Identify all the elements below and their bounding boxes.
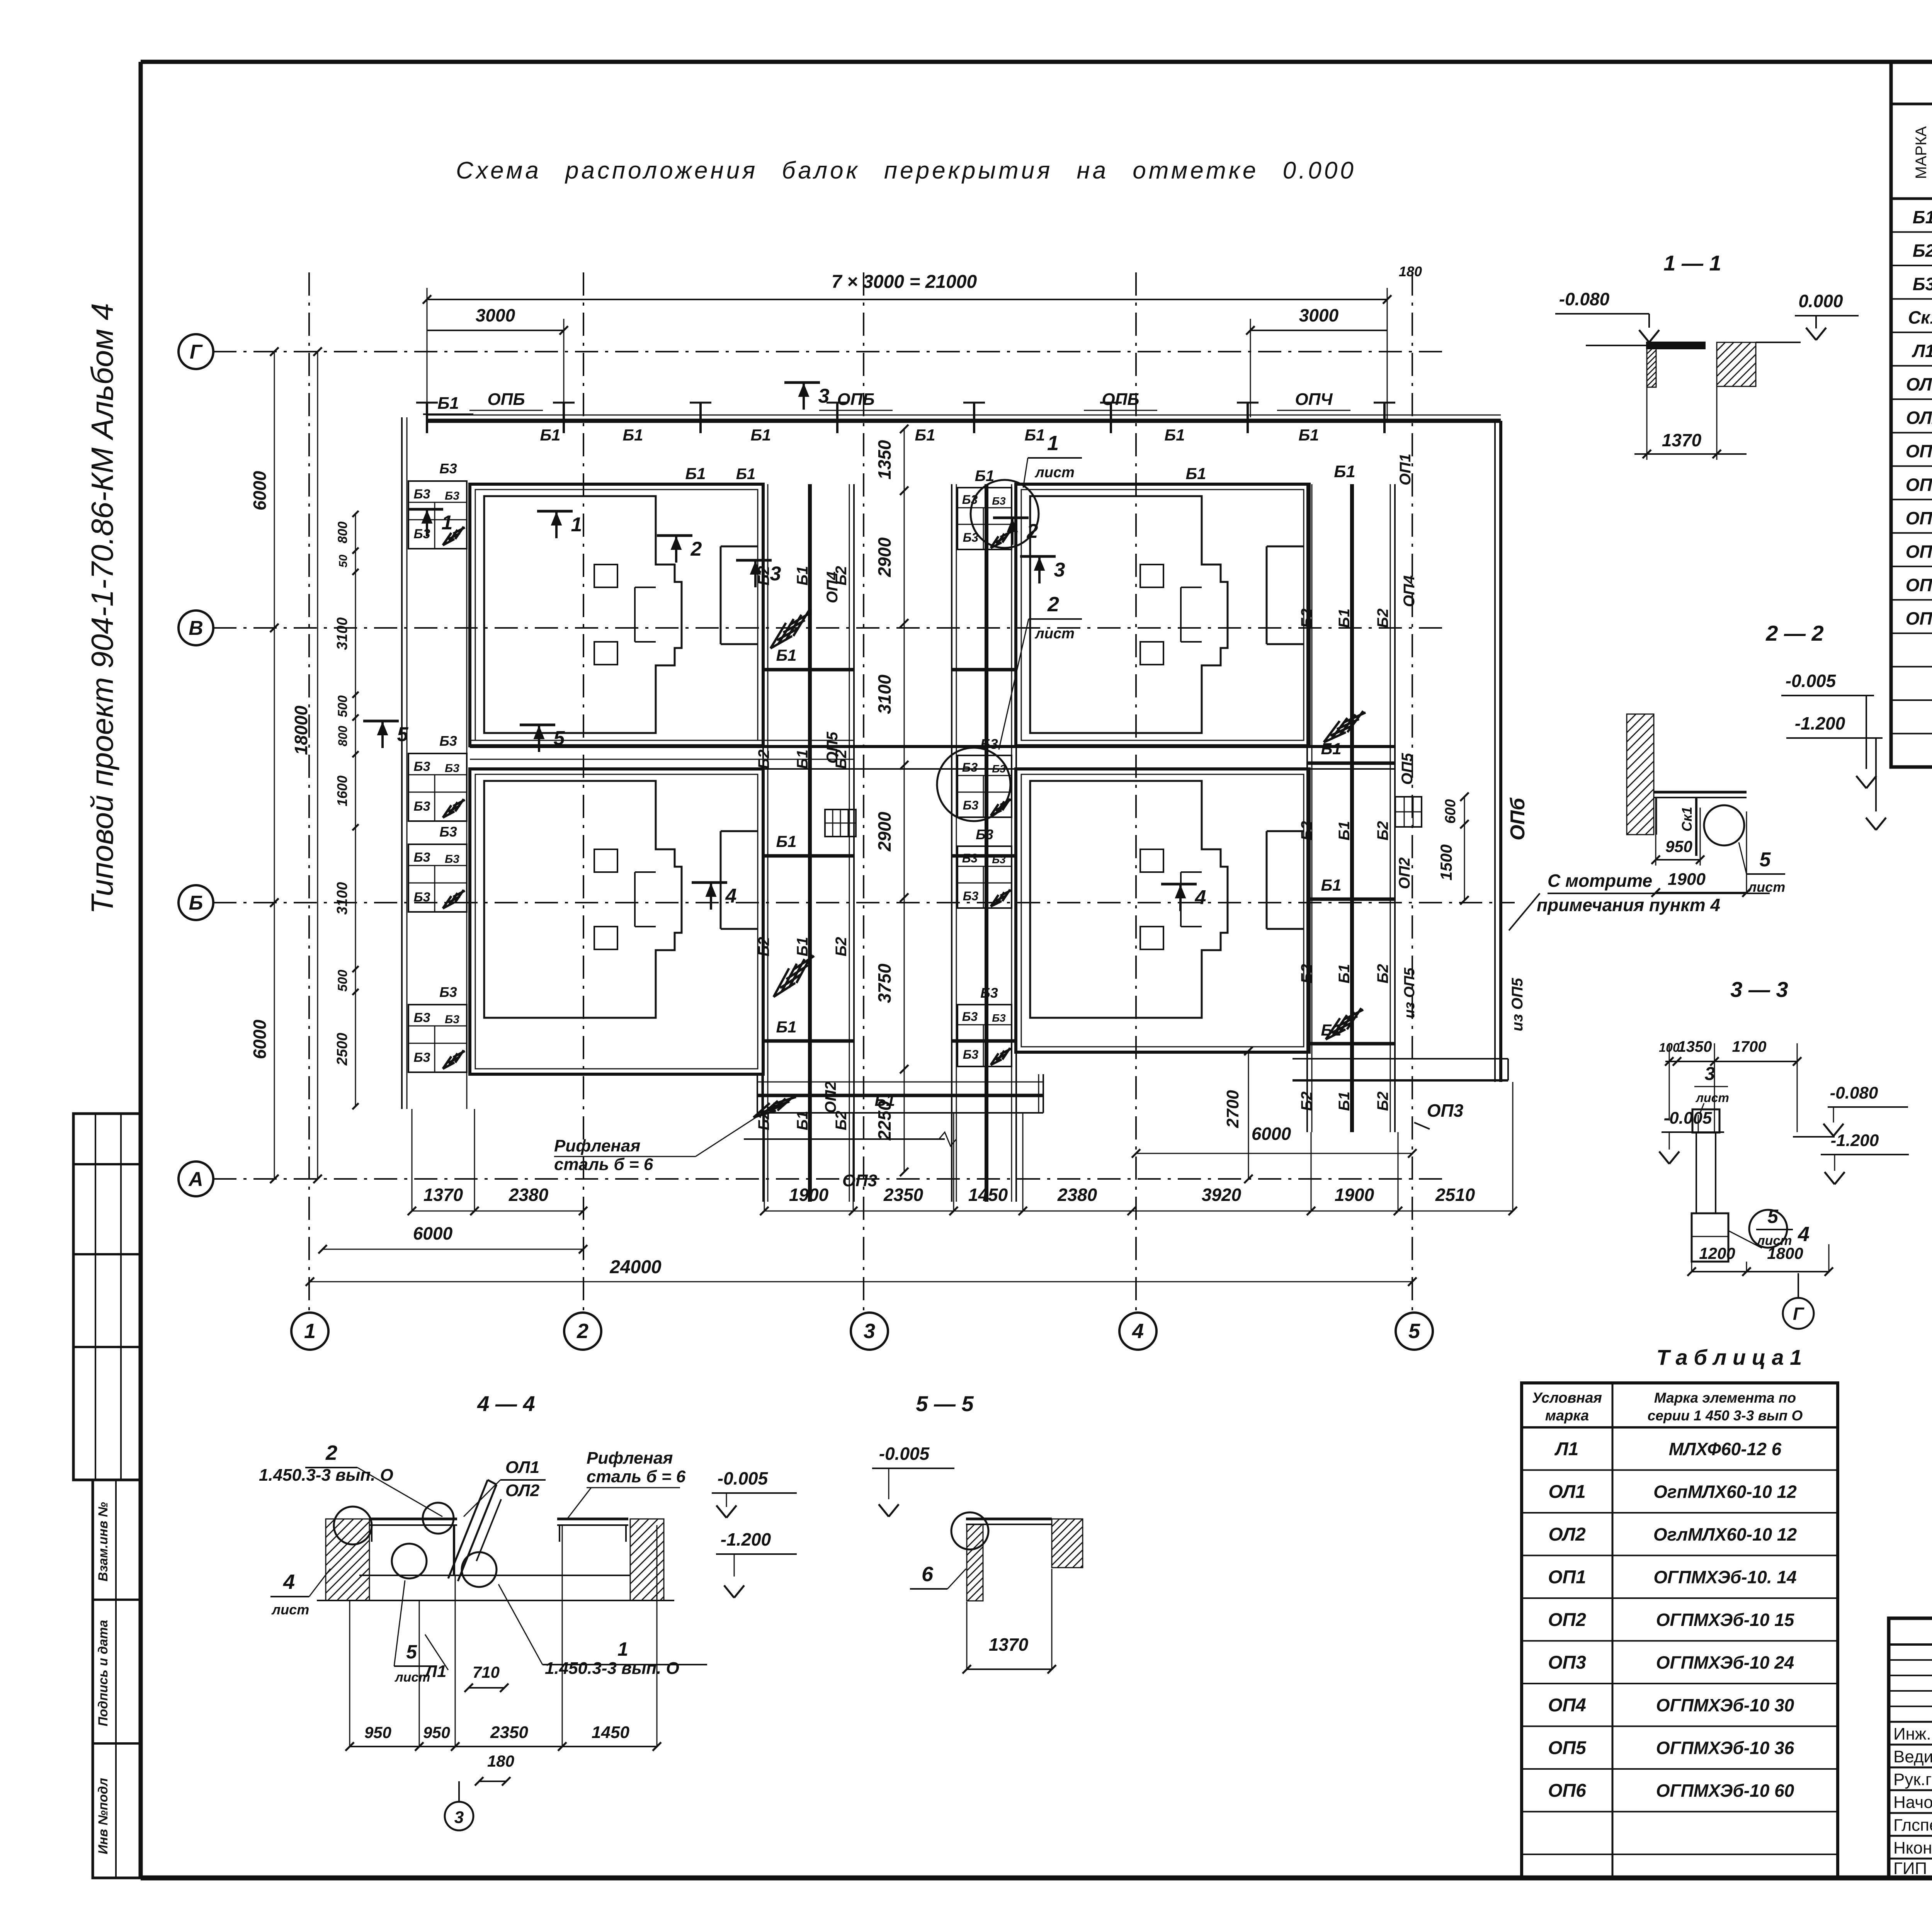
svg-text:серии 1 450 3-3 вып О: серии 1 450 3-3 вып О: [1648, 1408, 1803, 1423]
svg-text:лист: лист: [1695, 1091, 1729, 1105]
svg-text:7 × 3000 = 21000: 7 × 3000 = 21000: [832, 272, 977, 292]
svg-text:3: 3: [818, 385, 830, 407]
svg-text:4 — 4: 4 — 4: [477, 1391, 535, 1416]
svg-text:-1.200: -1.200: [721, 1529, 771, 1549]
svg-text:ОП5: ОП5: [1548, 1738, 1587, 1758]
svg-text:ОП1: ОП1: [1906, 441, 1932, 461]
svg-text:Б3: Б3: [992, 854, 1006, 866]
svg-text:6000: 6000: [250, 1019, 270, 1059]
svg-text:6: 6: [922, 1563, 934, 1586]
svg-text:1700: 1700: [1732, 1038, 1767, 1055]
svg-text:Б1: Б1: [794, 1111, 811, 1131]
svg-text:-0.005: -0.005: [1664, 1109, 1712, 1128]
svg-text:Б3: Б3: [439, 824, 457, 840]
svg-text:1200: 1200: [1699, 1244, 1735, 1262]
svg-text:Б3: Б3: [414, 890, 430, 905]
svg-text:5: 5: [406, 1641, 417, 1663]
svg-text:Рифленая: Рифленая: [587, 1449, 673, 1468]
svg-text:1: 1: [442, 512, 453, 534]
svg-text:Схема расположения балок: Схема расположения балок перекрытия на о…: [456, 157, 1356, 184]
svg-text:3100: 3100: [874, 674, 895, 714]
svg-text:3100: 3100: [334, 882, 350, 915]
svg-text:ОПб: ОПб: [1507, 797, 1529, 840]
svg-text:-1.200: -1.200: [1831, 1131, 1879, 1150]
svg-text:2350: 2350: [883, 1185, 923, 1205]
svg-text:Б1: Б1: [1334, 462, 1355, 481]
svg-text:1: 1: [571, 514, 582, 536]
svg-text:ОП2: ОП2: [822, 1082, 839, 1113]
svg-text:3000: 3000: [476, 305, 515, 325]
svg-text:2 — 2: 2 — 2: [1765, 621, 1823, 645]
svg-text:лист: лист: [271, 1602, 309, 1617]
svg-text:4: 4: [1195, 886, 1206, 909]
svg-text:2: 2: [1047, 593, 1059, 616]
svg-text:В: В: [189, 617, 203, 639]
svg-text:Б1: Б1: [1336, 609, 1353, 628]
svg-text:Инв №подл: Инв №подл: [96, 1778, 111, 1854]
svg-text:Б2: Б2: [1298, 609, 1315, 628]
svg-text:МЛХФ60-12 6: МЛХФ60-12 6: [1669, 1439, 1782, 1459]
svg-text:Б3: Б3: [445, 490, 459, 502]
svg-text:Б2: Б2: [1374, 609, 1391, 628]
svg-text:-0.005: -0.005: [1786, 671, 1837, 691]
svg-text:950: 950: [423, 1723, 450, 1742]
svg-text:ОЛ1: ОЛ1: [505, 1458, 539, 1477]
svg-text:ОП5: ОП5: [1399, 753, 1416, 785]
svg-text:Б: Б: [189, 892, 203, 914]
svg-text:1450: 1450: [592, 1723, 629, 1742]
svg-text:710: 710: [473, 1663, 500, 1681]
svg-text:2510: 2510: [1435, 1185, 1475, 1205]
svg-text:А: А: [188, 1168, 203, 1190]
svg-text:ОГПМХЭб-10 24: ОГПМХЭб-10 24: [1656, 1652, 1794, 1672]
svg-text:1.450.3-3 вып. О: 1.450.3-3 вып. О: [259, 1466, 393, 1485]
svg-text:Нконтр: Нконтр: [1893, 1838, 1932, 1857]
svg-text:1: 1: [1047, 432, 1059, 455]
svg-text:500: 500: [335, 696, 350, 718]
svg-text:Л1: Л1: [1554, 1439, 1579, 1459]
svg-text:Б1: Б1: [1298, 426, 1319, 444]
svg-text:1500: 1500: [1437, 844, 1455, 880]
svg-text:Б1: Б1: [750, 426, 771, 444]
svg-text:Б3: Б3: [414, 799, 430, 814]
svg-text:ОП6: ОП6: [1548, 1781, 1586, 1801]
svg-text:3 — 3: 3 — 3: [1730, 977, 1788, 1002]
svg-text:500: 500: [335, 970, 350, 992]
svg-text:800: 800: [335, 522, 350, 544]
svg-text:1800: 1800: [1767, 1244, 1803, 1262]
svg-text:Г: Г: [1793, 1304, 1804, 1324]
svg-text:Б1: Б1: [1336, 964, 1353, 984]
svg-text:ОПЧ: ОПЧ: [1295, 390, 1333, 409]
svg-text:-1.200: -1.200: [1795, 713, 1845, 733]
svg-text:1900: 1900: [789, 1185, 829, 1205]
svg-text:из ОП5: из ОП5: [1509, 978, 1526, 1031]
svg-text:Б3: Б3: [962, 1010, 978, 1024]
svg-text:Б1: Б1: [1164, 426, 1185, 444]
svg-text:Б2: Б2: [1913, 241, 1932, 261]
svg-text:3920: 3920: [1202, 1185, 1242, 1205]
svg-text:Б3: Б3: [445, 762, 459, 775]
svg-text:ГИП: ГИП: [1893, 1859, 1927, 1878]
svg-text:ОПБ: ОПБ: [487, 390, 525, 409]
svg-text:ОГПМХЭб-10. 14: ОГПМХЭб-10. 14: [1653, 1567, 1796, 1587]
svg-text:ОГПМХЭб-10 15: ОГПМХЭб-10 15: [1656, 1610, 1795, 1630]
svg-text:Б1: Б1: [776, 1018, 796, 1036]
svg-text:2: 2: [1027, 520, 1038, 543]
svg-text:МАРКА: МАРКА: [1913, 126, 1930, 179]
svg-text:Б2: Б2: [1374, 821, 1391, 841]
svg-text:2: 2: [690, 538, 702, 560]
svg-text:800: 800: [336, 726, 350, 747]
svg-text:Б1: Б1: [736, 466, 756, 483]
svg-text:марка: марка: [1545, 1408, 1589, 1424]
svg-text:950: 950: [364, 1723, 391, 1742]
svg-text:из ОП5: из ОП5: [1401, 968, 1418, 1019]
svg-text:Вединж: Вединж: [1893, 1747, 1932, 1766]
svg-text:3750: 3750: [874, 963, 895, 1003]
svg-text:950: 950: [1665, 837, 1692, 855]
svg-text:Рифленая: Рифленая: [554, 1136, 640, 1155]
svg-text:3100: 3100: [334, 617, 350, 650]
svg-text:6000: 6000: [1252, 1124, 1291, 1144]
svg-text:ОП4: ОП4: [1401, 575, 1418, 607]
svg-text:50: 50: [337, 554, 350, 568]
svg-text:3: 3: [1705, 1064, 1715, 1084]
svg-text:примечания пункт 4: примечания пункт 4: [1537, 895, 1720, 915]
svg-text:Б3: Б3: [992, 1012, 1006, 1024]
svg-text:Марка элемента по: Марка элемента по: [1654, 1390, 1796, 1406]
svg-text:ОЛ2: ОЛ2: [1548, 1524, 1586, 1545]
svg-text:сталь б = 6: сталь б = 6: [554, 1155, 653, 1174]
svg-text:Рук.гр: Рук.гр: [1893, 1770, 1932, 1789]
svg-text:2: 2: [577, 1320, 588, 1343]
svg-text:-0.080: -0.080: [1559, 289, 1610, 309]
svg-text:ОЛ1: ОЛ1: [1548, 1481, 1585, 1502]
svg-text:ОПБ: ОПБ: [837, 390, 874, 409]
svg-text:Л1: Л1: [1912, 341, 1932, 361]
svg-text:Б1: Б1: [540, 426, 560, 444]
svg-text:Б2: Б2: [755, 750, 772, 769]
svg-text:Б1: Б1: [874, 1091, 895, 1109]
svg-text:5: 5: [1767, 1206, 1779, 1227]
svg-text:Б2: Б2: [755, 937, 772, 957]
svg-text:Б1: Б1: [1336, 821, 1353, 841]
svg-text:Б1: Б1: [794, 937, 811, 957]
svg-text:ОП4: ОП4: [824, 571, 841, 603]
svg-text:ОГПМХЭб-10 36: ОГПМХЭб-10 36: [1656, 1738, 1794, 1758]
svg-text:3: 3: [454, 1808, 464, 1827]
svg-text:Глспец: Глспец: [1893, 1816, 1932, 1835]
svg-text:600: 600: [1442, 799, 1459, 823]
svg-text:ОП5: ОП5: [824, 731, 841, 764]
svg-text:2: 2: [325, 1441, 337, 1464]
svg-text:1 — 1: 1 — 1: [1663, 251, 1721, 275]
svg-text:1.450.3-3 вып. О: 1.450.3-3 вып. О: [545, 1659, 679, 1678]
svg-text:Б3: Б3: [414, 1050, 430, 1065]
svg-text:3: 3: [770, 563, 781, 585]
svg-text:ОП1: ОП1: [1397, 454, 1414, 485]
svg-text:Б3: Б3: [963, 889, 979, 903]
svg-text:Б3: Б3: [414, 487, 430, 502]
svg-text:6000: 6000: [250, 471, 270, 510]
svg-text:1370: 1370: [989, 1634, 1029, 1655]
svg-text:Взам.инв №: Взам.инв №: [96, 1502, 111, 1582]
svg-text:Б3: Б3: [976, 827, 993, 842]
svg-text:Б2: Б2: [833, 937, 850, 957]
svg-text:ОП4: ОП4: [1548, 1695, 1586, 1716]
svg-text:ОЛ2: ОЛ2: [1906, 408, 1932, 428]
svg-text:Типовой проект 904-1-70.86-К: Типовой проект 904-1-70.86-КМ Альбом 4: [85, 303, 119, 914]
svg-text:5 — 5: 5 — 5: [916, 1391, 974, 1416]
svg-text:3: 3: [864, 1320, 875, 1343]
svg-text:Б3: Б3: [445, 853, 459, 866]
svg-text:С мотрите: С мотрите: [1548, 871, 1652, 891]
svg-text:Б3: Б3: [980, 985, 998, 1001]
svg-text:Б2: Б2: [1374, 964, 1391, 984]
svg-text:лист: лист: [1034, 464, 1075, 481]
svg-text:Б1: Б1: [1913, 207, 1932, 227]
svg-text:2380: 2380: [509, 1185, 549, 1205]
svg-text:4: 4: [725, 885, 737, 907]
svg-text:Б3: Б3: [439, 733, 457, 749]
svg-text:ОП6: ОП6: [1906, 608, 1932, 628]
svg-text:-0.005: -0.005: [718, 1468, 769, 1488]
svg-text:Б3: Б3: [992, 495, 1006, 507]
svg-text:Б1: Б1: [776, 832, 796, 850]
svg-text:1: 1: [617, 1638, 628, 1660]
svg-text:ОП2: ОП2: [1906, 474, 1932, 495]
svg-text:2500: 2500: [334, 1033, 350, 1066]
svg-text:лист: лист: [394, 1670, 430, 1685]
svg-text:4: 4: [1798, 1223, 1810, 1246]
svg-text:Б2: Б2: [1298, 821, 1315, 841]
svg-text:ОглМЛХ60-10 12: ОглМЛХ60-10 12: [1653, 1524, 1797, 1544]
svg-text:1370: 1370: [1662, 430, 1702, 450]
svg-text:лист: лист: [1034, 626, 1075, 642]
svg-text:Т а б л и ц а 1: Т а б л и ц а 1: [1656, 1345, 1802, 1369]
svg-text:ОГПМХЭб-10 30: ОГПМХЭб-10 30: [1656, 1695, 1794, 1715]
svg-text:5: 5: [1408, 1320, 1420, 1343]
svg-text:Б3: Б3: [963, 798, 979, 812]
svg-text:18000: 18000: [291, 706, 311, 755]
svg-text:Б1: Б1: [437, 394, 459, 413]
svg-text:Ск1: Ск1: [1679, 807, 1695, 832]
svg-text:Б3: Б3: [962, 760, 978, 774]
svg-text:ОП1: ОП1: [1548, 1567, 1586, 1587]
svg-text:ОП3: ОП3: [1906, 508, 1932, 528]
svg-text:Ск1: Ск1: [1908, 308, 1932, 328]
svg-text:Б1: Б1: [1321, 876, 1341, 894]
svg-text:Б1: Б1: [794, 566, 811, 586]
svg-text:0.000: 0.000: [1798, 291, 1843, 311]
svg-text:3: 3: [1054, 559, 1065, 581]
svg-text:180: 180: [487, 1752, 514, 1770]
svg-text:Б3: Б3: [414, 759, 430, 774]
svg-text:Инж.: Инж.: [1893, 1725, 1931, 1743]
svg-text:Б1: Б1: [776, 646, 796, 664]
svg-text:-0.080: -0.080: [1830, 1083, 1878, 1102]
svg-text:Условная: Условная: [1532, 1390, 1602, 1406]
svg-text:1: 1: [304, 1320, 316, 1343]
svg-text:1350: 1350: [874, 440, 895, 480]
svg-text:Б3: Б3: [414, 1010, 430, 1025]
svg-text:4: 4: [283, 1570, 295, 1594]
svg-text:180: 180: [1399, 264, 1422, 279]
svg-text:ОП2: ОП2: [1396, 857, 1413, 889]
svg-text:Б1: Б1: [915, 426, 935, 444]
svg-text:ОгпМЛХ60-10 12: ОгпМЛХ60-10 12: [1653, 1481, 1797, 1502]
svg-text:сталь б = 6: сталь б = 6: [587, 1467, 686, 1486]
svg-text:Б3: Б3: [439, 461, 457, 476]
svg-text:Л1: Л1: [424, 1662, 447, 1681]
svg-text:1350: 1350: [1678, 1038, 1712, 1055]
svg-text:1600: 1600: [334, 776, 350, 806]
svg-text:ОГПМХЭб-10 60: ОГПМХЭб-10 60: [1656, 1781, 1794, 1801]
svg-text:Б1: Б1: [622, 426, 643, 444]
svg-text:ОП5: ОП5: [1906, 575, 1932, 595]
svg-text:ОЛ1: ОЛ1: [1906, 374, 1932, 395]
svg-text:1900: 1900: [1668, 870, 1706, 889]
svg-text:3000: 3000: [1299, 305, 1339, 325]
svg-text:Б1: Б1: [1336, 1092, 1353, 1111]
svg-text:5: 5: [397, 723, 409, 746]
svg-text:Б3: Б3: [1913, 274, 1932, 294]
svg-text:Начотд: Начотд: [1893, 1793, 1932, 1812]
svg-text:ОЛ2: ОЛ2: [505, 1481, 540, 1500]
svg-text:Г: Г: [190, 341, 203, 363]
svg-text:Б3: Б3: [962, 851, 978, 865]
svg-text:2900: 2900: [874, 811, 895, 852]
svg-text:Подпись и дата: Подпись и дата: [96, 1620, 111, 1726]
svg-text:Б3: Б3: [963, 1048, 979, 1061]
svg-text:ОП3: ОП3: [1548, 1652, 1586, 1673]
svg-text:ОП3: ОП3: [842, 1171, 877, 1190]
svg-text:2350: 2350: [490, 1723, 528, 1742]
svg-text:2700: 2700: [1223, 1090, 1242, 1128]
svg-text:-0.005: -0.005: [879, 1444, 930, 1464]
svg-text:Б1: Б1: [794, 750, 811, 769]
svg-text:5: 5: [1760, 849, 1771, 871]
svg-text:Б2: Б2: [1298, 1092, 1315, 1111]
svg-text:6000: 6000: [413, 1223, 453, 1243]
svg-text:5: 5: [554, 727, 565, 750]
svg-text:1370: 1370: [423, 1185, 463, 1205]
svg-text:Б3: Б3: [439, 984, 457, 1000]
svg-text:Б1: Б1: [685, 464, 706, 483]
svg-text:Б1: Б1: [1024, 426, 1045, 444]
svg-text:24000: 24000: [609, 1257, 662, 1277]
svg-text:2380: 2380: [1057, 1185, 1097, 1205]
svg-text:ОП3: ОП3: [1427, 1100, 1464, 1121]
svg-text:Б1: Б1: [1185, 464, 1206, 483]
svg-text:4: 4: [1132, 1320, 1144, 1343]
svg-text:ОП4: ОП4: [1906, 541, 1932, 561]
svg-text:лист: лист: [1747, 879, 1785, 895]
svg-text:2900: 2900: [874, 537, 895, 577]
svg-text:ОПБ: ОПБ: [1102, 390, 1139, 409]
svg-text:1450: 1450: [968, 1185, 1008, 1205]
svg-text:ОП2: ОП2: [1548, 1610, 1586, 1630]
svg-text:Б3: Б3: [445, 1013, 459, 1026]
svg-text:Б3: Б3: [414, 850, 430, 865]
svg-text:Б2: Б2: [1374, 1092, 1391, 1111]
svg-text:Б2: Б2: [833, 1111, 850, 1131]
svg-text:1900: 1900: [1335, 1185, 1374, 1205]
svg-text:Б2: Б2: [1298, 964, 1315, 984]
